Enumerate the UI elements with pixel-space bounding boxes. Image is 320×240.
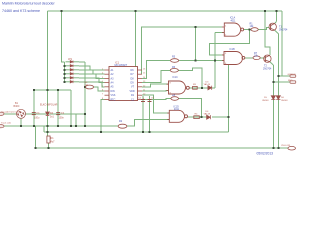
resistor R7 oval xyxy=(253,56,260,60)
resistor Rb oval at L1 xyxy=(118,124,127,128)
wire zener column lower xyxy=(47,116,49,137)
pad X1 left top xyxy=(0,112,4,115)
svg-text:Marklin Motorola turnout decod: Marklin Motorola turnout decoder xyxy=(2,2,56,6)
gate GC xyxy=(167,81,190,94)
wire GB input2 from oval A xyxy=(179,60,224,62)
IC1 pins right xyxy=(138,70,143,99)
IC1 pins left xyxy=(105,70,110,99)
bridge B1 xyxy=(17,109,26,118)
wire array left bus xyxy=(64,62,66,82)
pad GREEN xyxy=(290,75,296,78)
svg-text:RED: RED xyxy=(288,80,293,82)
wire T2 collector drop xyxy=(265,11,270,55)
wire pad to bridge xyxy=(3,113,16,115)
svg-text:4u7: 4u7 xyxy=(51,141,56,144)
wire latch feedback xyxy=(210,30,250,55)
wire R10 left xyxy=(84,86,87,88)
svg-text:YELLOW: YELLOW xyxy=(281,145,291,147)
wire D1 column to L3 xyxy=(48,143,50,148)
jumper row 2 wire xyxy=(79,66,105,70)
wire bottom bus L1 xyxy=(3,125,118,127)
gate GD xyxy=(167,110,187,122)
wire oval A left riser from pin R3 xyxy=(142,61,170,79)
resistor oval C xyxy=(171,97,179,101)
wire left supply vertical upper xyxy=(47,11,49,112)
wire top horizontal TH xyxy=(34,89,71,91)
wire top rail xyxy=(48,10,283,12)
wire R10 right to pin L6 xyxy=(94,87,105,91)
jumper row 3 wire xyxy=(79,70,105,74)
wire C1 column xyxy=(33,90,35,126)
wire R1 to T1 base xyxy=(258,28,269,30)
svg-text:2N3704: 2N3704 xyxy=(279,28,288,31)
svg-text:YA148: YA148 xyxy=(204,83,211,86)
pad X2 left bottom xyxy=(0,125,4,128)
transistor emitter diagonals (not crisp) xyxy=(270,30,279,65)
resistor R4 box xyxy=(194,116,200,119)
zener D2 xyxy=(46,112,50,115)
wire D6 lower xyxy=(277,100,279,149)
wire bridge bottom xyxy=(20,118,22,126)
wire bus L3 xyxy=(35,147,288,149)
IC1 pin numbers xyxy=(102,69,146,100)
wire GA out to R1 xyxy=(244,29,251,31)
wire L2 left riser xyxy=(43,126,45,132)
wire D3 out xyxy=(212,87,215,89)
wire right rail drop xyxy=(281,11,283,76)
transistor T1 xyxy=(269,23,276,30)
wire pinR5 to GC in1 xyxy=(142,84,169,87)
svg-text:05/02/2013: 05/02/2013 xyxy=(257,151,274,155)
wire T1 emitter drop xyxy=(277,34,279,96)
jumper row 5 wire xyxy=(79,78,105,83)
diode D3 xyxy=(208,86,212,90)
wire L1-L3 left riser xyxy=(34,126,36,148)
svg-text:YA148: YA148 xyxy=(204,112,211,115)
resistor oval B xyxy=(170,69,178,73)
jumper symbols xyxy=(66,61,80,84)
resistor R3 box xyxy=(193,86,198,89)
svg-text:VDD: VDD xyxy=(130,90,135,93)
svg-text:Track side: Track side xyxy=(1,122,12,125)
wire oval C left from pin R8 xyxy=(142,98,171,101)
jumper array rows xyxy=(66,58,105,87)
wire T1 emitter diagonal xyxy=(275,30,279,33)
svg-text:DIN: DIN xyxy=(111,90,115,93)
wire oval B right to D3 line xyxy=(179,68,202,88)
wire GA input2 xyxy=(215,32,224,34)
svg-text:Dig.side from track: Dig.side from track xyxy=(1,111,20,114)
wire GC out to D3 xyxy=(190,87,208,89)
svg-text:JP1: JP1 xyxy=(68,58,73,61)
svg-text:ELKO BIPOLAR: ELKO BIPOLAR xyxy=(40,103,58,106)
pad RED xyxy=(290,81,296,84)
wire bridge right to caps xyxy=(26,113,85,115)
diode D5 xyxy=(271,96,275,100)
resistor R1 oval xyxy=(251,28,258,32)
wire C5 column xyxy=(149,96,151,132)
resistor oval A xyxy=(171,59,179,63)
svg-text:YA148: YA148 xyxy=(281,99,288,102)
svg-text:100n: 100n xyxy=(59,117,65,120)
svg-text:IC1A: IC1A xyxy=(230,17,236,20)
jumper row 6 wire xyxy=(79,82,105,87)
svg-text:74460 and K73 scheme: 74460 and K73 scheme xyxy=(2,9,40,13)
wire T2 emitter drop xyxy=(272,65,274,96)
svg-text:VSS: VSS xyxy=(111,94,116,97)
wire L1 oval to GD in2 riser xyxy=(127,119,169,126)
wire x76 riser xyxy=(75,114,77,126)
wire bus L2 xyxy=(44,131,229,133)
svg-text:IC1C: IC1C xyxy=(173,77,179,79)
svg-text:2N3704: 2N3704 xyxy=(263,67,272,70)
wire C4 column xyxy=(142,96,144,132)
svg-text:RTC: RTC xyxy=(111,98,116,101)
wire pinR6 to GC in2 xyxy=(142,90,169,92)
diode D1 xyxy=(47,136,50,143)
diode D6 xyxy=(276,96,280,100)
capacitor C1 xyxy=(32,113,36,115)
wire GB out to R7 xyxy=(245,57,253,59)
wire data riser xyxy=(195,27,197,61)
svg-text:IC1B: IC1B xyxy=(230,49,236,51)
svg-text:4011: 4011 xyxy=(231,20,237,22)
svg-text:IC1D: IC1D xyxy=(174,106,180,108)
wire D4 out to L2 xyxy=(212,116,229,118)
jumper row 1 wire xyxy=(79,61,85,63)
wire GD out to D4 xyxy=(187,116,206,118)
svg-text:B40C: B40C xyxy=(14,105,20,108)
pad YELLOW bottom right xyxy=(288,146,296,150)
capacitor C4 xyxy=(141,100,145,102)
wire x70 riser xyxy=(70,90,72,126)
resistor R10 oval xyxy=(86,85,94,89)
svg-text:4011: 4011 xyxy=(174,109,180,111)
transistor T2 xyxy=(264,55,271,62)
wire C2 column xyxy=(57,90,59,126)
wire oval B left riser from pin R4 xyxy=(142,70,170,82)
wire GA input1 from IC pin R2 xyxy=(142,27,223,74)
wire array feed vertical xyxy=(62,11,65,62)
gate GB xyxy=(222,52,245,65)
svg-text:YA148: YA148 xyxy=(262,99,269,102)
wire pad green xyxy=(278,75,290,77)
wire GB lower drop xyxy=(228,65,230,133)
wire T1 collector xyxy=(275,11,277,24)
capacitor C5 xyxy=(148,100,152,102)
wire oval C right to D4 line xyxy=(178,99,201,118)
svg-text:100u: 100u xyxy=(34,117,40,120)
svg-text:5v1: 5v1 xyxy=(50,116,55,119)
jumper row 4 wire xyxy=(79,74,105,79)
wire R7 to T2 base xyxy=(260,57,264,59)
IC1 body xyxy=(109,67,138,101)
capacitor C2 xyxy=(56,113,60,115)
svg-text:GREEN: GREEN xyxy=(288,74,296,76)
svg-text:VT: VT xyxy=(131,86,135,89)
gate GA xyxy=(222,23,244,36)
diode D4 xyxy=(207,115,211,119)
svg-text:MC145027: MC145027 xyxy=(115,63,128,67)
wire pad red xyxy=(273,81,290,83)
wire IC pin L8 down to L2 xyxy=(101,99,105,132)
wire D5 lower xyxy=(272,100,274,149)
wire T2 emitter diagonal xyxy=(270,62,274,65)
wire IC vcc vertical xyxy=(135,11,137,67)
IC1 pin names xyxy=(111,69,135,101)
wire set net vertical xyxy=(214,33,216,88)
wire pinR7 to GD in1 xyxy=(142,95,169,113)
wire x85 column xyxy=(84,62,86,126)
